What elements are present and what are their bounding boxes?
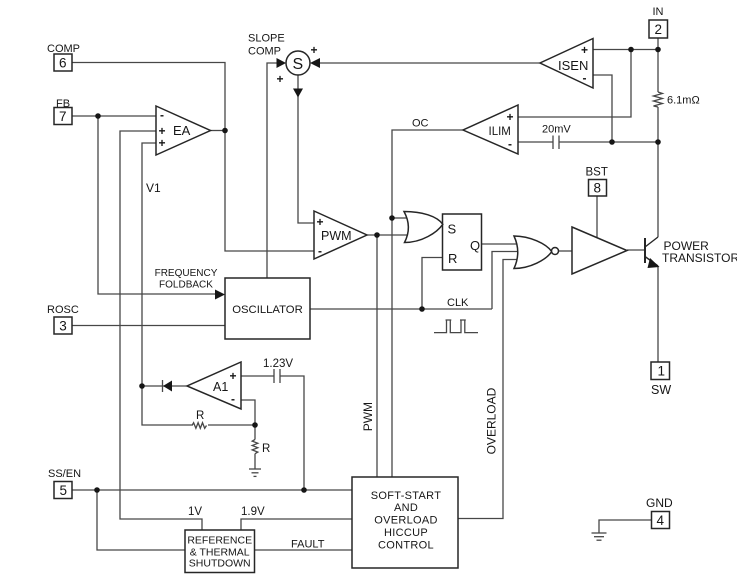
svg-text:HICCUP: HICCUP	[384, 527, 428, 539]
svg-text:+: +	[507, 110, 514, 124]
svg-text:EA: EA	[173, 123, 191, 138]
svg-text:PWM: PWM	[321, 229, 352, 243]
svg-text:SLOPE: SLOPE	[248, 33, 285, 45]
svg-text:1V: 1V	[188, 506, 202, 518]
svg-text:-: -	[508, 137, 512, 151]
svg-text:V1: V1	[146, 181, 161, 195]
svg-text:-: -	[318, 244, 322, 258]
svg-text:3: 3	[59, 318, 67, 333]
svg-text:SOFT-START: SOFT-START	[371, 490, 441, 502]
svg-text:PWM: PWM	[361, 402, 375, 431]
svg-text:OSCILLATOR: OSCILLATOR	[232, 304, 303, 316]
svg-text:+: +	[311, 43, 318, 57]
svg-text:+: +	[159, 136, 166, 150]
svg-text:Q: Q	[470, 238, 480, 253]
svg-text:1.9V: 1.9V	[241, 506, 265, 518]
svg-text:-: -	[583, 71, 587, 85]
svg-text:SW: SW	[651, 383, 671, 397]
svg-text:6.1mΩ: 6.1mΩ	[667, 95, 700, 107]
svg-text:FAULT: FAULT	[291, 539, 325, 551]
svg-text:S: S	[293, 56, 304, 73]
svg-text:8: 8	[594, 180, 602, 195]
svg-text:OVERLOAD: OVERLOAD	[485, 387, 499, 454]
svg-text:COMP: COMP	[248, 46, 281, 58]
svg-text:TRANSISTOR: TRANSISTOR	[662, 251, 737, 265]
svg-text:ROSC: ROSC	[47, 304, 79, 316]
svg-text:5: 5	[60, 483, 68, 498]
svg-text:S: S	[448, 222, 457, 237]
svg-text:+: +	[277, 72, 284, 86]
svg-text:SHUTDOWN: SHUTDOWN	[189, 558, 251, 570]
svg-text:BST: BST	[586, 167, 608, 179]
svg-text:-: -	[231, 392, 235, 406]
svg-text:OC: OC	[412, 118, 429, 130]
svg-text:-: -	[160, 108, 164, 122]
svg-text:7: 7	[59, 109, 67, 124]
svg-text:IN: IN	[653, 6, 664, 18]
svg-text:+: +	[581, 43, 588, 57]
svg-text:OVERLOAD: OVERLOAD	[374, 515, 438, 527]
svg-text:SS/EN: SS/EN	[48, 468, 81, 480]
svg-text:R: R	[196, 410, 204, 422]
svg-text:AND: AND	[394, 502, 418, 514]
svg-text:R: R	[448, 251, 457, 266]
svg-text:4: 4	[657, 513, 665, 528]
svg-text:+: +	[317, 215, 324, 229]
svg-text:6: 6	[59, 55, 67, 70]
svg-text:+: +	[230, 369, 237, 383]
svg-text:1.23V: 1.23V	[263, 358, 293, 370]
svg-text:CLK: CLK	[447, 297, 469, 309]
svg-text:FREQUENCY: FREQUENCY	[155, 268, 218, 279]
svg-text:COMP: COMP	[47, 43, 80, 55]
svg-text:GND: GND	[646, 496, 673, 510]
svg-text:CONTROL: CONTROL	[378, 540, 434, 552]
svg-text:1: 1	[658, 363, 666, 378]
svg-text:20mV: 20mV	[542, 124, 571, 136]
svg-text:A1: A1	[213, 380, 228, 394]
svg-text:FOLDBACK: FOLDBACK	[159, 280, 213, 291]
svg-text:R: R	[262, 443, 270, 455]
svg-text:2: 2	[655, 22, 663, 37]
svg-text:REFERENCE: REFERENCE	[187, 535, 252, 547]
